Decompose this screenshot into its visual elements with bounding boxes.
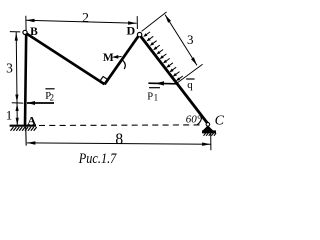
svg-text:3: 3 — [187, 32, 194, 47]
svg-text:q: q — [187, 79, 193, 91]
support A hatching — [11, 127, 37, 131]
dashed reference line A to C — [39, 124, 200, 127]
dimension 3 slanted: line — [165, 15, 197, 66]
svg-text:A: A — [27, 114, 36, 128]
support A ground line — [10, 125, 36, 127]
support C hatching — [204, 133, 217, 136]
svg-text:3: 3 — [6, 60, 13, 75]
svg-text:2: 2 — [82, 11, 89, 26]
dimension 1 left — [16, 104, 19, 112]
wire: left column A-B — [25, 33, 26, 126]
dimension 3 slanted: extension lines — [142, 12, 167, 32]
svg-text:1: 1 — [154, 92, 159, 102]
dimension 8: line — [27, 143, 211, 144]
svg-text:60°: 60° — [186, 113, 202, 125]
wire: bar B to elbow — [27, 34, 105, 85]
moment M arc — [122, 60, 125, 69]
svg-text:C: C — [215, 114, 225, 129]
svg-text:D: D — [127, 24, 136, 38]
node B hinge — [23, 30, 27, 34]
moment M leader arrow — [112, 55, 119, 59]
svg-text:Рис.1.7: Рис.1.7 — [78, 151, 117, 167]
60 degree arc at C — [197, 116, 201, 125]
wire: bar D to C — [141, 37, 207, 123]
wire: bar elbow to D — [105, 36, 139, 84]
svg-text:B: B — [30, 26, 38, 38]
force P2 arrow — [27, 102, 54, 104]
force P1 arrow — [148, 82, 176, 85]
node D hinge — [137, 32, 141, 36]
svg-text:P: P — [147, 92, 153, 103]
dimension 8: extension lines — [25, 127, 28, 146]
right-angle mark at elbow — [100, 77, 108, 82]
node C hinge — [206, 123, 210, 127]
svg-text:2: 2 — [50, 93, 55, 103]
support C triangle — [203, 126, 212, 131]
dimension 3 left: line — [16, 32, 17, 125]
svg-text:1: 1 — [6, 108, 13, 123]
distributed load q arrows on bar D-C — [145, 32, 183, 80]
support C ground line — [202, 130, 216, 133]
svg-text:8: 8 — [115, 131, 123, 148]
dimension 2: line — [26, 20, 137, 23]
svg-text:M: M — [103, 52, 114, 64]
